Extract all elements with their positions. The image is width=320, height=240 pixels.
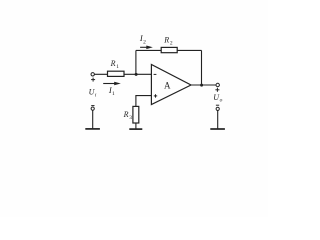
svg-text:1: 1 bbox=[116, 64, 119, 70]
wire input bottom lead bbox=[92, 110, 94, 128]
svg-text:i: i bbox=[95, 93, 97, 99]
resistor R2 bbox=[161, 47, 177, 52]
op-amp A bbox=[151, 65, 191, 105]
resistor R1 bbox=[108, 71, 125, 76]
svg-text:1: 1 bbox=[112, 91, 115, 97]
svg-text:2: 2 bbox=[143, 39, 146, 45]
wire feedback left vertical bbox=[135, 50, 137, 74]
ground (input side) bbox=[85, 128, 100, 130]
terminal output + (circle) bbox=[216, 83, 219, 86]
polarity + (input) bbox=[91, 78, 95, 82]
ground (output side) bbox=[210, 128, 225, 130]
ground (below R3) bbox=[129, 128, 142, 130]
svg-text:R: R bbox=[110, 59, 116, 68]
pin label - (inverting, inside op-amp) bbox=[154, 73, 157, 75]
wire R3 bottom lead bbox=[135, 123, 137, 129]
wire output bottom lead bbox=[217, 111, 219, 129]
wire input (Ui+ terminal to op-amp inverting input) bbox=[94, 73, 151, 75]
terminal output - (circle) bbox=[216, 107, 219, 110]
wire feedback top horizontal bbox=[136, 49, 202, 51]
svg-text:3: 3 bbox=[129, 115, 132, 121]
polarity + (output) bbox=[215, 88, 219, 92]
svg-text:A: A bbox=[164, 80, 171, 90]
svg-text:2: 2 bbox=[170, 41, 173, 47]
wire output (op-amp apex to output terminal) bbox=[191, 84, 216, 86]
terminal input - (circle) bbox=[91, 107, 94, 110]
svg-text:R: R bbox=[123, 110, 129, 119]
current arrow I2 bbox=[140, 46, 153, 50]
pin label + (non-inverting, inside op-amp) bbox=[154, 94, 157, 97]
wire feedback right vertical bbox=[201, 50, 203, 85]
polarity - (output bottom) bbox=[216, 104, 219, 106]
resistor R3 bbox=[133, 106, 139, 123]
svg-text:R: R bbox=[163, 36, 169, 45]
polarity - (input bottom) bbox=[91, 105, 94, 107]
svg-text:o: o bbox=[220, 98, 223, 104]
wire non-inverting input bbox=[136, 96, 151, 107]
node (inverting input junction) bbox=[135, 73, 138, 76]
node (output junction) bbox=[200, 84, 203, 87]
terminal input + (circle) bbox=[91, 73, 94, 76]
current arrow I1 bbox=[103, 82, 121, 86]
